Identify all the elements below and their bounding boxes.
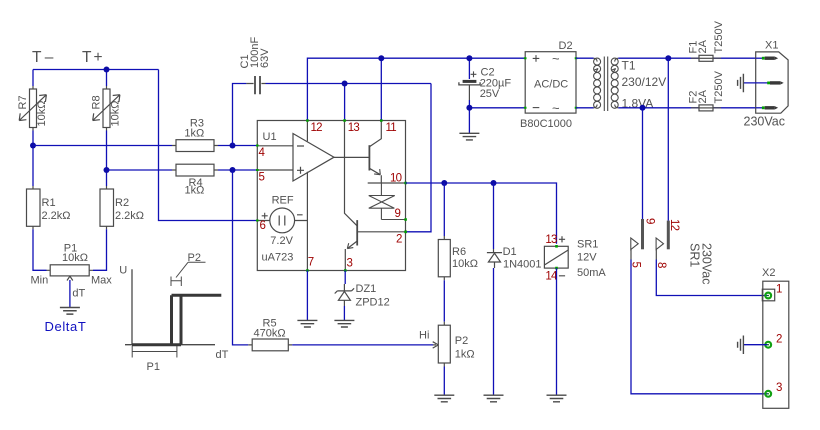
bridge rectifier D2 B80C1000 (525, 52, 576, 113)
svg-text:DZ1: DZ1 (356, 283, 377, 295)
svg-text:1kΩ: 1kΩ (185, 185, 205, 197)
ground under DZ1 (334, 320, 354, 327)
svg-text:2: 2 (776, 334, 782, 346)
potentiometer P1 10k (47, 265, 94, 281)
potentiometer P2 1k (433, 322, 451, 367)
capacitor C1 100nF (246, 76, 265, 94)
svg-text:R7: R7 (17, 95, 29, 109)
svg-text:U1: U1 (263, 131, 277, 143)
svg-text:dT: dT (72, 288, 85, 300)
svg-text:3: 3 (776, 382, 782, 394)
resistor R2 2.2k (100, 186, 114, 229)
svg-text:dT: dT (216, 349, 229, 361)
junction R5 branch (230, 167, 236, 173)
U1 internal: current-sense resistor zigzag (369, 183, 406, 220)
svg-text:Hi: Hi (419, 330, 429, 342)
svg-text:470kΩ: 470kΩ (254, 328, 286, 340)
wire top T rail (33, 70, 159, 87)
wire V+ rail pin12 up and right to D2 (307, 58, 525, 119)
capacitor C2 220uF polarized (459, 71, 480, 100)
wire down to D1 (493, 183, 495, 249)
svg-text:10kΩ: 10kΩ (452, 258, 478, 270)
junction node A (30, 143, 36, 149)
graph axes U/dT (125, 269, 215, 345)
svg-text:Max: Max (91, 275, 112, 287)
resistor R1 2.2k (27, 186, 41, 229)
graph P2 annotation (171, 262, 206, 286)
wire P1 wiper to ground (69, 280, 71, 307)
wire pin3 down to DZ1 (344, 271, 346, 285)
U1 internal: pin10 line (368, 182, 406, 184)
wire R5 branch down (233, 170, 249, 345)
wire net A to R3 (33, 145, 172, 147)
svg-text:ZPD12: ZPD12 (356, 297, 390, 309)
svg-text:Min: Min (31, 275, 49, 287)
svg-text:~: ~ (552, 51, 560, 66)
svg-text:B80C1000: B80C1000 (520, 118, 572, 130)
relay coil SR1 (544, 236, 568, 276)
junction D1 top (491, 180, 497, 186)
wire R1 to P1 (33, 229, 47, 270)
wire pin10 output rail (406, 183, 557, 244)
svg-text:R8: R8 (91, 95, 103, 109)
wire C1 right to pin13 and pin2 (266, 84, 432, 232)
U1 pin ticks (257, 121, 407, 271)
ground under P1 (60, 308, 80, 315)
junction R6 top (441, 180, 447, 186)
svg-text:~: ~ (552, 101, 560, 116)
svg-text:230Vac: 230Vac (744, 115, 785, 129)
svg-text:R1: R1 (42, 197, 56, 209)
junction pin13 branch (342, 81, 348, 87)
X1 pin 3 (756, 107, 763, 109)
U1 internal: pin12 line (306, 121, 308, 142)
svg-text:–: – (45, 49, 54, 66)
connector X1 outline (756, 52, 788, 113)
U1 internal: transistor Q2 (345, 220, 405, 270)
svg-text:D1: D1 (503, 246, 517, 258)
svg-text:T250V: T250V (713, 20, 725, 53)
svg-text:1: 1 (776, 284, 782, 296)
svg-text:P2: P2 (188, 252, 201, 264)
svg-text:3: 3 (347, 258, 353, 270)
svg-text:AC/DC: AC/DC (534, 79, 568, 91)
wire DZ1 to ground (343, 306, 345, 320)
wire R5 to P2 wiper (Hi) (292, 344, 433, 346)
svg-text:uA723: uA723 (262, 252, 294, 264)
X2 pin1 frame (762, 289, 774, 301)
svg-text:10: 10 (390, 173, 402, 185)
X2 pin 3 (765, 391, 771, 397)
junction C2 top (466, 55, 472, 61)
earth symbol X2 pin2 (738, 336, 744, 355)
fuse F1 2A (691, 57, 721, 59)
U1 internal: REF source (257, 172, 307, 271)
svg-text:9: 9 (395, 208, 401, 220)
wire R2 to P1 (93, 229, 107, 270)
svg-text:230Vac: 230Vac (700, 243, 714, 284)
junction pin11 branch (378, 55, 384, 61)
zener diode DZ1 ZPD12 (335, 284, 354, 306)
wire T1 primary top to F1 and X1 (618, 58, 755, 108)
resistor R5 470k (248, 339, 292, 351)
wire SR1 coil to ground (556, 268, 558, 395)
svg-text:X1: X1 (765, 40, 778, 52)
wire C1 branch up (233, 84, 247, 146)
svg-text:12V: 12V (577, 252, 597, 264)
svg-text:SR1: SR1 (688, 243, 702, 267)
junction T+ (104, 67, 110, 73)
wire D2 to T1 secondary (576, 58, 594, 108)
wire R7 bottom to net4 (33, 131, 107, 187)
svg-text:5: 5 (259, 172, 265, 184)
diode D1 1N4001 (487, 249, 502, 268)
svg-text:12: 12 (668, 219, 680, 231)
resistor R4 1k (172, 164, 218, 176)
svg-text:2.2kΩ: 2.2kΩ (115, 210, 144, 222)
svg-text:10kΩ: 10kΩ (36, 101, 48, 127)
svg-text:2A: 2A (697, 89, 709, 103)
ground under D1 (484, 395, 504, 402)
connector X2 outline (763, 281, 789, 408)
wire contact B down from T1 top junction (667, 58, 669, 220)
X1 pin 2 (earth) (743, 82, 768, 84)
svg-text:10kΩ: 10kΩ (62, 252, 88, 264)
svg-text:U: U (119, 265, 127, 277)
svg-text:DeltaT: DeltaT (45, 319, 87, 334)
svg-text:11: 11 (386, 122, 397, 134)
wire D1 to ground (493, 268, 495, 395)
ground under C2 (459, 133, 479, 140)
wire down to R6 (443, 183, 445, 236)
svg-text:+: + (94, 49, 103, 66)
svg-text:T250V: T250V (713, 70, 725, 103)
svg-text:7: 7 (308, 257, 314, 269)
wire R6 to P2 (443, 280, 445, 321)
U1 internal: transistor Q1 (369, 121, 381, 184)
junction contact9 branch (640, 105, 646, 111)
fuse F2 2A (691, 107, 721, 109)
svg-text:T: T (82, 49, 92, 66)
U1 internal: pin13/output/Q2 collector line (334, 121, 369, 226)
svg-text:230/12V: 230/12V (622, 75, 667, 89)
svg-text:T1: T1 (622, 59, 636, 73)
resistor R3 1k (172, 140, 218, 152)
wire contact A to X2 pin3 (631, 260, 768, 394)
svg-text:1N4001: 1N4001 (503, 259, 542, 271)
resistor R6 10k (438, 236, 450, 280)
svg-text:R6: R6 (452, 246, 466, 258)
svg-text:9: 9 (643, 218, 655, 224)
earth symbol X1 (738, 74, 744, 93)
wire R3 to pin4 (218, 145, 257, 147)
svg-text:SR1: SR1 (577, 239, 598, 251)
ground under pin7 (297, 320, 317, 327)
wire contact B to X2 pin1 (656, 260, 767, 296)
svg-text:6: 6 (260, 220, 266, 232)
X2 pin 2 (765, 342, 771, 348)
transformer T1 (594, 57, 619, 112)
svg-text:2.2kΩ: 2.2kΩ (42, 210, 71, 222)
junction contact12 branch (665, 55, 671, 61)
svg-text:X2: X2 (762, 267, 775, 279)
svg-text:13: 13 (545, 234, 557, 246)
op-amp U1 uA723 box (257, 121, 405, 271)
ground under P2 (434, 395, 454, 402)
svg-text:P2: P2 (455, 335, 468, 347)
svg-text:2: 2 (396, 234, 402, 246)
svg-text:4: 4 (259, 147, 266, 159)
ground under SR1 coil (547, 395, 567, 402)
wire net B to R4 (107, 169, 173, 171)
resistor R7 10k (variable) (19, 86, 46, 131)
svg-text:50mA: 50mA (577, 267, 606, 279)
svg-text:1kΩ: 1kΩ (184, 127, 204, 139)
svg-text:REF: REF (272, 195, 294, 207)
junction C2 bottom (466, 105, 472, 111)
U1 opamp triangle (257, 134, 334, 182)
junction node B (104, 167, 110, 173)
svg-text:63V: 63V (259, 48, 271, 68)
svg-text:T: T (32, 49, 42, 66)
wire R4 to pin5 (218, 169, 257, 171)
svg-text:R2: R2 (115, 197, 129, 209)
svg-text:13: 13 (348, 122, 360, 134)
svg-text:1kΩ: 1kΩ (455, 349, 475, 361)
X2 pin 1 (765, 293, 771, 299)
graph P1 annotation (132, 346, 177, 358)
wire P2 to ground (443, 367, 445, 396)
relay contact SR1 A (pins 9-5) (641, 219, 644, 249)
svg-text:10kΩ: 10kΩ (110, 101, 122, 127)
X1 pin 1 (756, 57, 763, 59)
svg-text:2A: 2A (697, 39, 709, 53)
wire pin7 down to ground (306, 271, 308, 321)
resistor R8 10k (variable) (93, 86, 120, 131)
wire contact A down from T1 bottom junction (642, 108, 644, 219)
wire T+ rail down to pin6 (159, 70, 257, 221)
svg-text:P1: P1 (147, 361, 160, 373)
svg-text:25V: 25V (480, 88, 500, 100)
junction C1 branch (230, 143, 236, 149)
svg-text:7.2V: 7.2V (270, 235, 293, 247)
relay contact SR1 B (pins 12-8) (667, 221, 670, 250)
svg-text:12: 12 (311, 122, 323, 134)
svg-text:D2: D2 (559, 40, 573, 52)
graph step curve (132, 295, 221, 345)
wire C2 bottom / D2 minus (469, 100, 525, 133)
